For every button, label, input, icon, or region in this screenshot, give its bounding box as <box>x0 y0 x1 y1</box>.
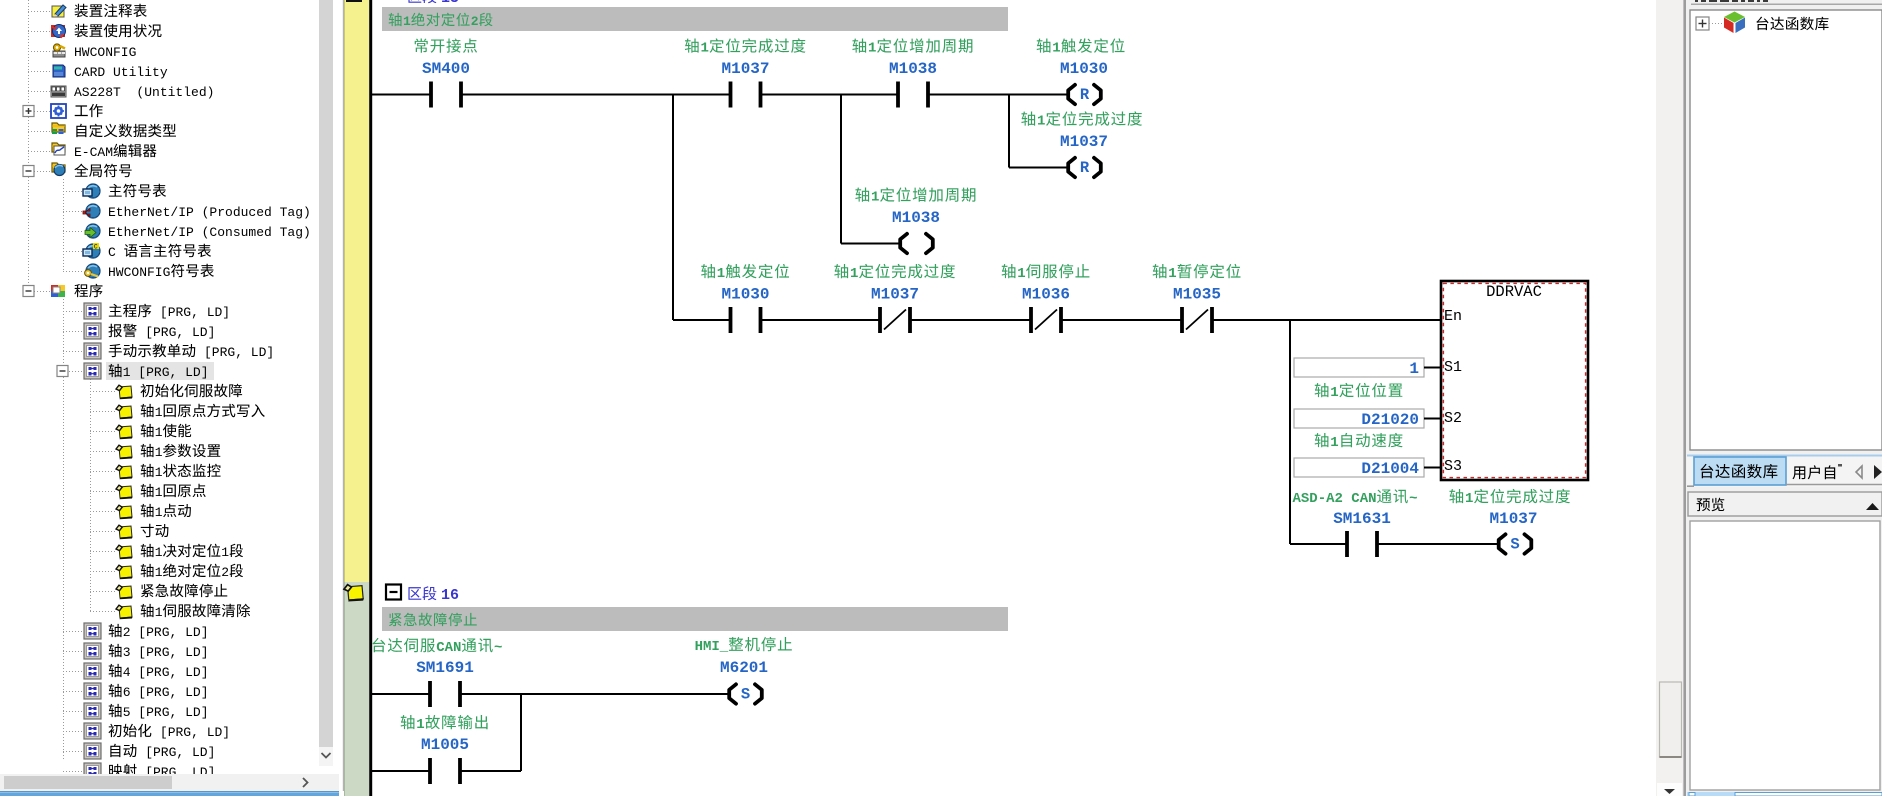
contact M1038 (NO) <box>898 82 928 108</box>
panel splitter border <box>1683 0 1686 796</box>
wire rail to M1005 <box>372 770 430 772</box>
project tree panel background <box>0 0 344 796</box>
wire: M1038 to coil M1030 <box>928 94 1068 96</box>
svg-text:SM1691: SM1691 <box>416 659 474 677</box>
operand box S1 value 1 <box>1294 358 1424 377</box>
tree item: C \u8bed\u8a00\u4e3b\u7b26\u53f7\u8868 <box>63 243 211 260</box>
contact M1005 (NO) <box>430 758 460 784</box>
svg-text:M1030: M1030 <box>1060 60 1108 78</box>
svg-text:M1037: M1037 <box>1060 133 1108 151</box>
bottom docked window sliver (left) <box>0 791 339 796</box>
contact SM400 (NO) <box>431 82 461 108</box>
svg-text:5 [PRG, LD]: 5 [PRG, LD] <box>123 705 209 720</box>
wire: rail to SM400 <box>372 94 431 96</box>
svg-text:1: 1 <box>155 565 163 580</box>
svg-text:R: R <box>1080 86 1090 104</box>
tree item: \u7d27\u6025\u6545\u969c\u505c\u6b62 <box>90 584 227 599</box>
svg-text:SM400: SM400 <box>422 60 470 78</box>
tree item: \u81ea\u5b9a\u4e49\u6570\u636e\u7c7b\u578b <box>28 123 176 137</box>
preview header bar <box>1688 492 1882 516</box>
Delta function library cube icon <box>1724 12 1745 34</box>
coil M1030 (R reset) <box>1068 85 1101 104</box>
tree item: EtherNet/IP (Produced Tag) <box>63 204 311 220</box>
tree item: EtherNet/IP (Consumed Tag) <box>63 224 311 240</box>
svg-text:C: C <box>108 245 124 260</box>
svg-text:[PRG, LD]: [PRG, LD] <box>137 745 215 760</box>
svg-text:1: 1 <box>1037 114 1045 130</box>
svg-text:4 [PRG, LD]: 4 [PRG, LD] <box>123 665 209 680</box>
svg-text:1: 1 <box>1330 435 1338 451</box>
wire SM1691 to coil M6201 <box>460 693 730 695</box>
svg-text:3 [PRG, LD]: 3 [PRG, LD] <box>123 645 209 660</box>
expand box for Delta function library <box>1696 17 1709 30</box>
label: axis1 positioning position <box>1315 383 1329 397</box>
tree item: \u8f741\u56de\u539f\u70b9 <box>90 484 206 500</box>
tree item: E-CAM\u7f16\u8f91\u5668 <box>28 143 157 160</box>
svg-text:2: 2 <box>471 14 479 29</box>
contact M1037 (NC) <box>880 307 910 333</box>
wire M1036 to M1035 <box>1061 319 1182 321</box>
tree item: \u8f741\u53c2\u6570\u8bbe\u7f6e <box>90 444 220 460</box>
tree item: \u62a5\u8b66 [PRG, LD] <box>63 323 215 340</box>
tree item: \u8f744 [PRG, LD] <box>63 663 209 680</box>
svg-text:~: ~ <box>1409 491 1417 507</box>
contact M1030 (NO) <box>731 307 761 333</box>
tree item: \u5bf8\u52a8 <box>90 524 168 539</box>
svg-text:R: R <box>1080 159 1090 177</box>
wire M1030 to M1037 <box>761 319 881 321</box>
comment: axis1 positioning increment cycle <box>855 187 869 201</box>
wire M1005 to branch <box>460 770 521 772</box>
comment: axis1 positioning increment cycle <box>852 38 866 52</box>
preview content box <box>1690 521 1880 790</box>
tree item: \u4e3b\u7b26\u53f7\u8868 <box>63 184 166 198</box>
contact SM1631 (NO) <box>1347 531 1377 557</box>
svg-text:1: 1 <box>155 465 163 480</box>
label: axis1 auto speed <box>1315 433 1329 447</box>
svg-text:1: 1 <box>1465 491 1473 507</box>
operand box S3 value D21004 <box>1294 458 1424 477</box>
tree item: \u81ea\u52a8 [PRG, LD] <box>63 743 215 760</box>
tree item: HWCONFIG <box>28 44 136 60</box>
comment: axis1 positioning complete transition <box>1449 489 1463 503</box>
contact SM1691 (NO) <box>430 681 460 707</box>
svg-text:1 [PRG, LD]: 1 [PRG, LD] <box>123 365 209 380</box>
function block DDRVAC (selected) <box>1441 281 1588 480</box>
svg-text:EtherNet/IP (Consumed Tag): EtherNet/IP (Consumed Tag) <box>108 225 311 240</box>
svg-text:HMI_: HMI_ <box>695 639 729 655</box>
svg-text:[PRG, LD]: [PRG, LD] <box>152 305 230 320</box>
svg-text:1: 1 <box>1168 266 1176 282</box>
svg-text:1: 1 <box>701 41 709 57</box>
svg-text:M6201: M6201 <box>720 659 768 677</box>
tree item: \u8f741\u4f3a\u670d\u6545\u969c\u6e05\u9664 <box>90 604 250 620</box>
comment: axis1 pause positioning <box>1153 264 1167 278</box>
tree item: \u8f741\u4f7f\u80fd <box>90 424 191 440</box>
wire operand2 to S2 <box>1424 418 1441 420</box>
ladder editor background <box>344 0 1656 796</box>
contact M1036 (NC) <box>1031 307 1061 333</box>
svg-text:15: 15 <box>441 0 459 7</box>
svg-text:M1037: M1037 <box>1489 510 1537 528</box>
comment: axis1 trigger positioning <box>701 264 715 278</box>
svg-text:D21004: D21004 <box>1361 460 1419 478</box>
svg-text:CARD Utility: CARD Utility <box>74 65 168 80</box>
svg-text:1: 1 <box>868 41 876 57</box>
svg-text:2 [PRG, LD]: 2 [PRG, LD] <box>123 625 209 640</box>
svg-text:1: 1 <box>155 445 163 460</box>
coil M1037 (R reset) <box>1068 158 1101 177</box>
svg-text:M1037: M1037 <box>721 60 769 78</box>
tree item: \u88c5\u7f6e\u6ce8\u91ca\u8868 <box>28 4 147 17</box>
svg-text:1: 1 <box>1409 360 1419 378</box>
svg-text:1: 1 <box>416 717 424 733</box>
wire: branch down from En wire to row C <box>1289 320 1291 544</box>
tree item: CARD Utility <box>28 65 168 80</box>
tree item: \u88c5\u7f6e\u4f7f\u7528\u72b6\u51b5 <box>28 24 162 38</box>
svg-text:1: 1 <box>155 505 163 520</box>
contact M1035 (NC) <box>1182 307 1212 333</box>
comment: axis1 positioning complete transition <box>834 264 848 278</box>
network 16 margin strip (green) <box>344 582 369 796</box>
comment: Delta servo CAN communication <box>373 638 386 652</box>
svg-text:~: ~ <box>494 640 502 656</box>
wire to SM1631 <box>1290 543 1347 545</box>
comment: axis1 servo stop <box>1002 264 1016 278</box>
svg-text:S2: S2 <box>1444 410 1462 427</box>
network 15 note icon (clipped at top) <box>346 0 362 2</box>
network 16 note icon in margin <box>344 585 364 602</box>
wire rail to SM1691 <box>372 693 430 695</box>
wire: branch from row A down to row B <box>672 95 674 321</box>
svg-text:HWCONFIG: HWCONFIG <box>74 45 136 60</box>
tree item: \u6620\u5c04 [PRG, LD] <box>63 763 215 780</box>
svg-text:1: 1 <box>155 405 163 420</box>
svg-text:1: 1 <box>1330 385 1338 401</box>
coil M1037 (S set) <box>1499 534 1532 553</box>
active tab: Delta function library <box>1694 457 1786 485</box>
wire: branch down to M1037 reset coil <box>1008 95 1010 168</box>
operand box S2 value D21020 <box>1294 409 1424 428</box>
tree connector vertical line (global symbols children) <box>63 179 65 271</box>
wire operand3 to S3 <box>1424 467 1441 469</box>
right panel cut-off header <box>1687 0 1882 9</box>
tree item: \u8f745 [PRG, LD] <box>63 703 209 720</box>
svg-text:1: 1 <box>717 266 725 282</box>
tree item: AS228T (Untitled) <box>28 85 214 100</box>
svg-text:[PRG, LD]: [PRG, LD] <box>196 345 274 360</box>
svg-text:D21020: D21020 <box>1361 411 1419 429</box>
svg-text:En: En <box>1444 308 1462 325</box>
coil M1038 (output) <box>900 234 933 253</box>
wire M1035 to function block En <box>1212 319 1441 321</box>
network 15 margin strip (yellow) <box>344 0 369 582</box>
inactive tab: user defined <box>1786 484 1882 486</box>
svg-text:1: 1 <box>1052 41 1060 57</box>
svg-text:1: 1 <box>155 605 163 620</box>
svg-text:M1037: M1037 <box>871 286 919 304</box>
svg-text:M1030: M1030 <box>721 286 769 304</box>
tree item: \u4e3b\u7a0b\u5e8f [PRG, LD] <box>63 303 230 320</box>
svg-text:EtherNet/IP (Produced Tag): EtherNet/IP (Produced Tag) <box>108 205 311 220</box>
tree item: \u8f741\u70b9\u52a8 <box>90 504 191 520</box>
svg-text:AS228T (Untitled): AS228T (Untitled) <box>74 85 214 100</box>
comment: axis1 fault output <box>401 715 415 729</box>
wire: branch down to M1038 coil <box>840 95 842 244</box>
tree panel right separator <box>343 0 345 791</box>
svg-text:HWCONFIG: HWCONFIG <box>108 265 170 280</box>
svg-text:S: S <box>1510 536 1519 554</box>
svg-text:M1035: M1035 <box>1173 286 1221 304</box>
comment: normally open contact (chang kai jie dian) <box>415 38 428 52</box>
contact M1037 (NO) <box>731 82 761 108</box>
tree item: \u7a0b\u5e8f <box>23 284 103 297</box>
svg-text:ASD-A2 CAN: ASD-A2 CAN <box>1293 491 1377 507</box>
svg-text:CAN: CAN <box>436 640 461 656</box>
tree connector vertical line (axis1 networks) <box>90 379 92 611</box>
svg-text:DDRVAC: DDRVAC <box>1486 283 1542 301</box>
svg-text:M1038: M1038 <box>889 60 937 78</box>
tree item: \u8f746 [PRG, LD] <box>63 683 209 700</box>
comment: axis1 positioning complete transition <box>685 38 699 52</box>
svg-text:1: 1 <box>221 545 229 560</box>
tree item: \u8f743 [PRG, LD] <box>63 643 209 660</box>
svg-text:S: S <box>741 686 750 704</box>
tree item: \u8f741\u51b3\u5bf9\u5b9a\u4f4d1\u6bb5 <box>90 544 243 560</box>
svg-text:1: 1 <box>155 545 163 560</box>
tree vertical scrollbar <box>319 0 333 747</box>
tree horizontal scrollbar <box>0 774 339 791</box>
tree connector vertical line (root) <box>28 0 30 291</box>
svg-text:1: 1 <box>155 485 163 500</box>
network 15 header text remnant (qu duan 15) <box>408 0 421 3</box>
right panel background <box>1683 0 1882 796</box>
ladder vertical scrollbar <box>1656 0 1683 796</box>
tree item: \u8f742 [PRG, LD] <box>63 623 209 640</box>
svg-text:1: 1 <box>871 190 879 206</box>
tree item: \u8f741\u56de\u539f\u70b9\u65b9\u5f0f\u5199\u516 <box>90 404 265 420</box>
tree item: \u8f741\u72b6\u6001\u76d1\u63a7 <box>90 464 221 480</box>
wire: row B start <box>673 319 731 321</box>
svg-text:M1036: M1036 <box>1022 286 1070 304</box>
tree item: \u5de5\u4f5c <box>23 104 103 118</box>
bottom docked window sliver (right) <box>1687 792 1882 796</box>
coil M6201 (S set) <box>729 684 762 703</box>
svg-text:E-CAM: E-CAM <box>74 145 113 160</box>
wire: parallel branch down <box>520 694 522 771</box>
network 16 header: qu duan 16 <box>408 587 421 600</box>
svg-text:[PRG, LD]: [PRG, LD] <box>137 325 215 340</box>
tree item: \u8f741 [PRG, LD] <box>57 362 214 380</box>
svg-text:S3: S3 <box>1444 458 1462 475</box>
wire: M1037 to M1038 <box>761 94 899 96</box>
tree connector vertical line (program children) <box>63 299 65 760</box>
svg-text:C: C <box>94 244 98 251</box>
tree item: \u8f741\u7edd\u5bf9\u5b9a\u4f4d2\u6bb5 <box>90 564 243 580</box>
tab scroll arrows <box>1856 466 1862 478</box>
svg-text:M1005: M1005 <box>421 736 469 754</box>
wire operand1 to S1 <box>1424 367 1441 369</box>
label: Delta function library <box>1756 17 1768 31</box>
wire M1037 to M1036 <box>910 319 1031 321</box>
svg-text:1: 1 <box>850 266 858 282</box>
svg-text:M1038: M1038 <box>892 209 940 227</box>
tab strip <box>1687 454 1882 487</box>
svg-text:SM1631: SM1631 <box>1333 510 1391 528</box>
function library tree box <box>1690 10 1882 450</box>
svg-text:1: 1 <box>403 14 411 29</box>
network 16 collapse box <box>386 585 401 600</box>
tree item: \u624b\u52a8\u793a\u6559\u5355\u52a8 [PRG, LD] <box>63 343 274 360</box>
comment: axis1 positioning complete transition <box>1021 111 1035 125</box>
svg-text:16: 16 <box>441 587 459 604</box>
tree item: \u521d\u59cb\u5316\u4f3a\u670d\u6545\u969c <box>90 384 242 399</box>
svg-text:1: 1 <box>155 425 163 440</box>
svg-text:1: 1 <box>1017 266 1025 282</box>
network 15 comment bar: axis1 absolute positioning seg2 <box>382 7 1008 31</box>
svg-text:2: 2 <box>221 565 229 580</box>
comment: axis1 trigger positioning <box>1037 38 1051 52</box>
tree item: \u5168\u5c40\u7b26\u53f7 <box>23 163 132 177</box>
svg-text:[PRG, LD]: [PRG, LD] <box>152 725 230 740</box>
wire SM1631 to coil <box>1377 543 1499 545</box>
left power rail <box>369 0 372 796</box>
tree item: HWCONFIG\u7b26\u53f7\u8868 <box>63 264 214 280</box>
wire: SM400 to M1037 <box>461 94 731 96</box>
svg-text:S1: S1 <box>1444 359 1462 376</box>
tree item: \u521d\u59cb\u5316 [PRG, LD] <box>63 723 230 740</box>
svg-text:6 [PRG, LD]: 6 [PRG, LD] <box>123 685 209 700</box>
network 16 comment bar: emergency fault stop <box>382 607 1008 631</box>
